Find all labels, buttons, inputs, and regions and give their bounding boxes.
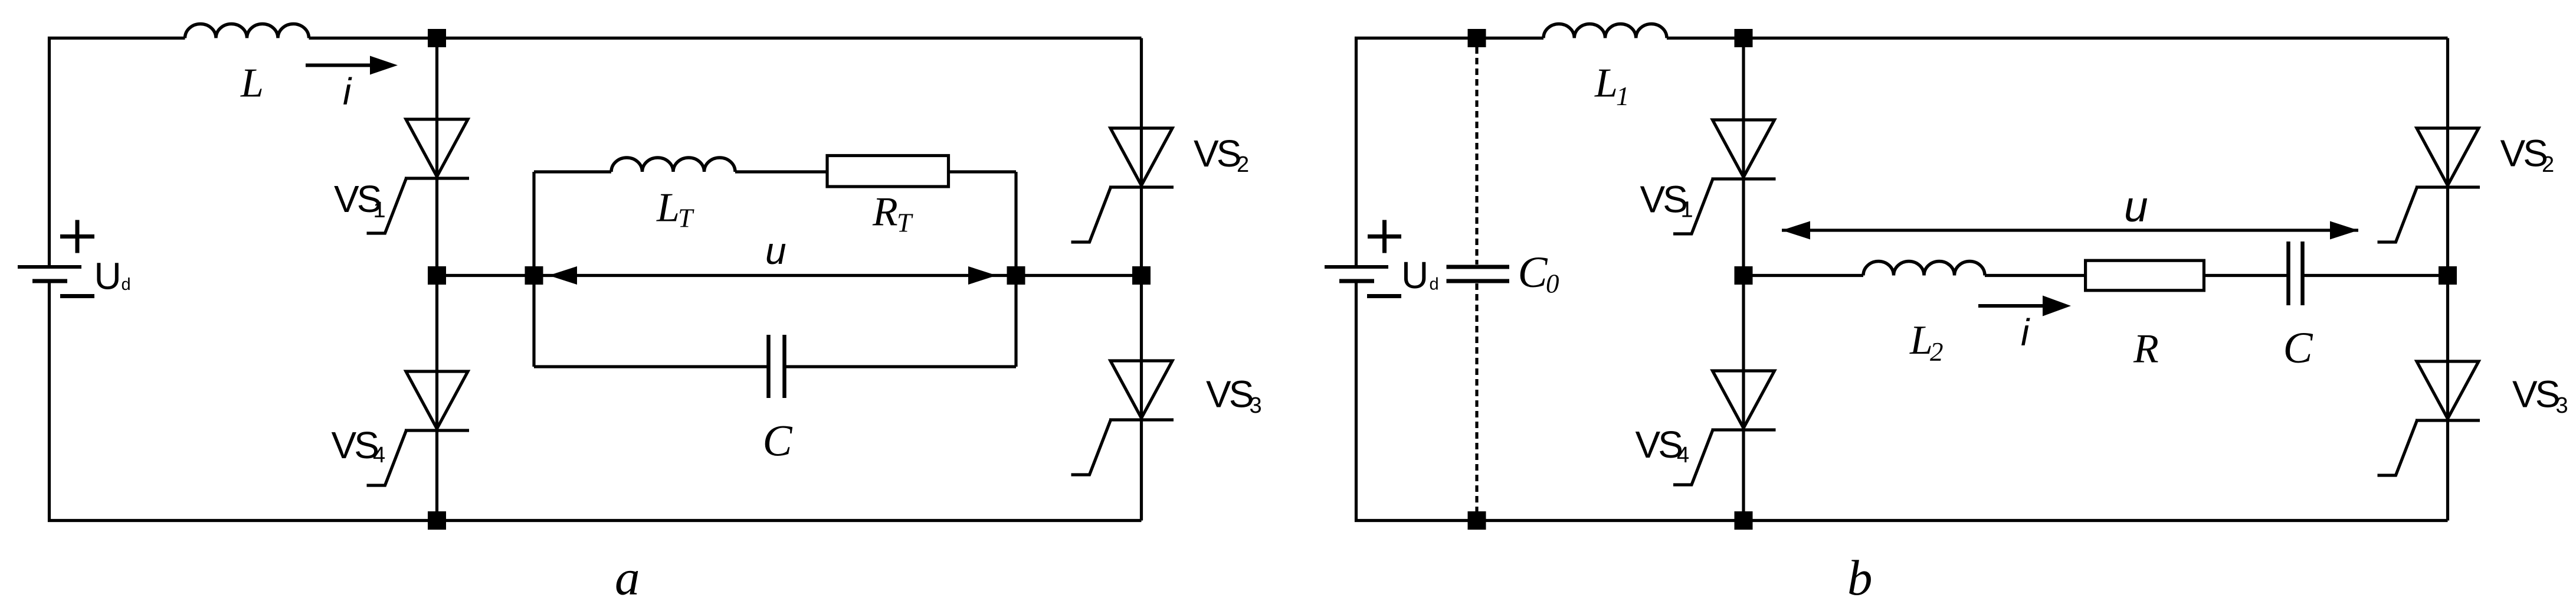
svg-text:R: R — [872, 190, 898, 235]
svg-text:3: 3 — [1250, 393, 1262, 418]
svg-text:VS: VS — [1640, 178, 1687, 221]
svg-text:1: 1 — [1616, 81, 1630, 111]
arrow i — [306, 64, 374, 67]
svg-text:1: 1 — [1681, 198, 1693, 223]
thyristor VS1 — [367, 119, 470, 233]
battery Ud — [18, 220, 94, 296]
svg-text:d: d — [122, 275, 131, 294]
wire — [1140, 38, 1143, 521]
resistor R — [2086, 260, 2204, 291]
svg-text:L: L — [1594, 61, 1618, 106]
thyristor VS4 b — [1673, 371, 1776, 485]
inductor LT — [611, 158, 735, 172]
svg-text:i: i — [2021, 311, 2030, 354]
svg-text:2: 2 — [1930, 337, 1944, 367]
svg-text:L: L — [240, 61, 264, 106]
arrow i head — [370, 56, 398, 75]
thyristor VS1 b — [1673, 120, 1776, 234]
arrow u heads — [549, 266, 577, 285]
thyristor VS3 — [1071, 361, 1174, 475]
svg-text:3: 3 — [2556, 393, 2568, 418]
node — [428, 29, 446, 47]
svg-text:U: U — [1401, 254, 1426, 296]
svg-text:2: 2 — [2542, 152, 2554, 177]
thyristor VS3 b — [2378, 361, 2480, 475]
svg-text:2: 2 — [1237, 152, 1249, 177]
wire — [50, 283, 1142, 521]
node — [1468, 511, 1486, 530]
wire — [950, 170, 1016, 173]
inductor L — [185, 24, 309, 38]
svg-text:T: T — [897, 208, 913, 238]
wire — [1014, 172, 1017, 367]
svg-text:VS: VS — [1206, 373, 1253, 416]
wire — [1743, 274, 1863, 277]
node — [1735, 511, 1753, 530]
wire — [50, 38, 185, 266]
node — [1132, 266, 1151, 285]
svg-text:b: b — [1847, 550, 1873, 606]
thyristor VS2 — [1071, 128, 1174, 242]
svg-text:VS: VS — [2512, 373, 2559, 416]
svg-text:d: d — [1430, 275, 1439, 294]
arrow u b heads — [1782, 221, 1810, 240]
wire — [309, 37, 1142, 40]
wire — [437, 274, 1142, 277]
thyristor VS4 — [367, 371, 470, 485]
svg-text:T: T — [678, 204, 694, 233]
svg-text:R: R — [2133, 327, 2159, 372]
svg-text:VS: VS — [332, 424, 378, 466]
node — [428, 511, 446, 530]
node — [1007, 266, 1025, 285]
node — [1735, 266, 1753, 285]
svg-text:4: 4 — [373, 443, 385, 468]
node — [525, 266, 543, 285]
wire — [1742, 38, 1745, 521]
capacitor C — [769, 335, 785, 398]
svg-text:C: C — [1518, 248, 1548, 297]
arrow i b — [1978, 304, 2044, 308]
svg-text:i: i — [343, 70, 352, 113]
svg-text:C: C — [2283, 324, 2313, 373]
wire — [435, 38, 438, 521]
wire — [1356, 283, 2448, 521]
capacitor C0 — [1447, 47, 1510, 511]
wire — [2303, 274, 2448, 277]
node — [1468, 29, 1486, 47]
wire — [2446, 38, 2449, 521]
arrow i b head — [2043, 296, 2071, 316]
capacitor C b — [2289, 242, 2303, 305]
svg-text:0: 0 — [1546, 269, 1559, 299]
inductor L1 — [1543, 24, 1667, 38]
battery Ud b — [1325, 220, 1401, 296]
svg-text:a: a — [615, 550, 640, 606]
wire — [1667, 37, 2448, 40]
node — [428, 266, 446, 285]
svg-text:u: u — [765, 230, 786, 272]
svg-text:1: 1 — [373, 198, 386, 223]
wire — [532, 172, 535, 367]
wire — [785, 365, 1016, 368]
svg-text:4: 4 — [1677, 443, 1689, 468]
svg-text:VS: VS — [1636, 423, 1682, 466]
svg-text:C: C — [763, 417, 793, 466]
wire — [2205, 274, 2288, 277]
wire — [1985, 274, 2084, 277]
arrow u b — [1782, 229, 2358, 231]
svg-text:VS: VS — [1194, 132, 1240, 175]
svg-text:u: u — [2124, 183, 2148, 231]
node — [2439, 266, 2457, 285]
svg-text:L: L — [656, 185, 680, 231]
thyristor VS2 b — [2378, 128, 2480, 242]
node — [1735, 29, 1753, 47]
svg-text:L: L — [1909, 318, 1933, 363]
svg-text:VS: VS — [2500, 132, 2547, 175]
wire — [735, 170, 826, 173]
wire — [1356, 38, 1544, 266]
svg-text:U: U — [94, 255, 119, 298]
wire — [534, 365, 768, 368]
resistor RT — [827, 156, 949, 187]
inductor L2 — [1863, 262, 1985, 276]
wire — [534, 170, 611, 173]
